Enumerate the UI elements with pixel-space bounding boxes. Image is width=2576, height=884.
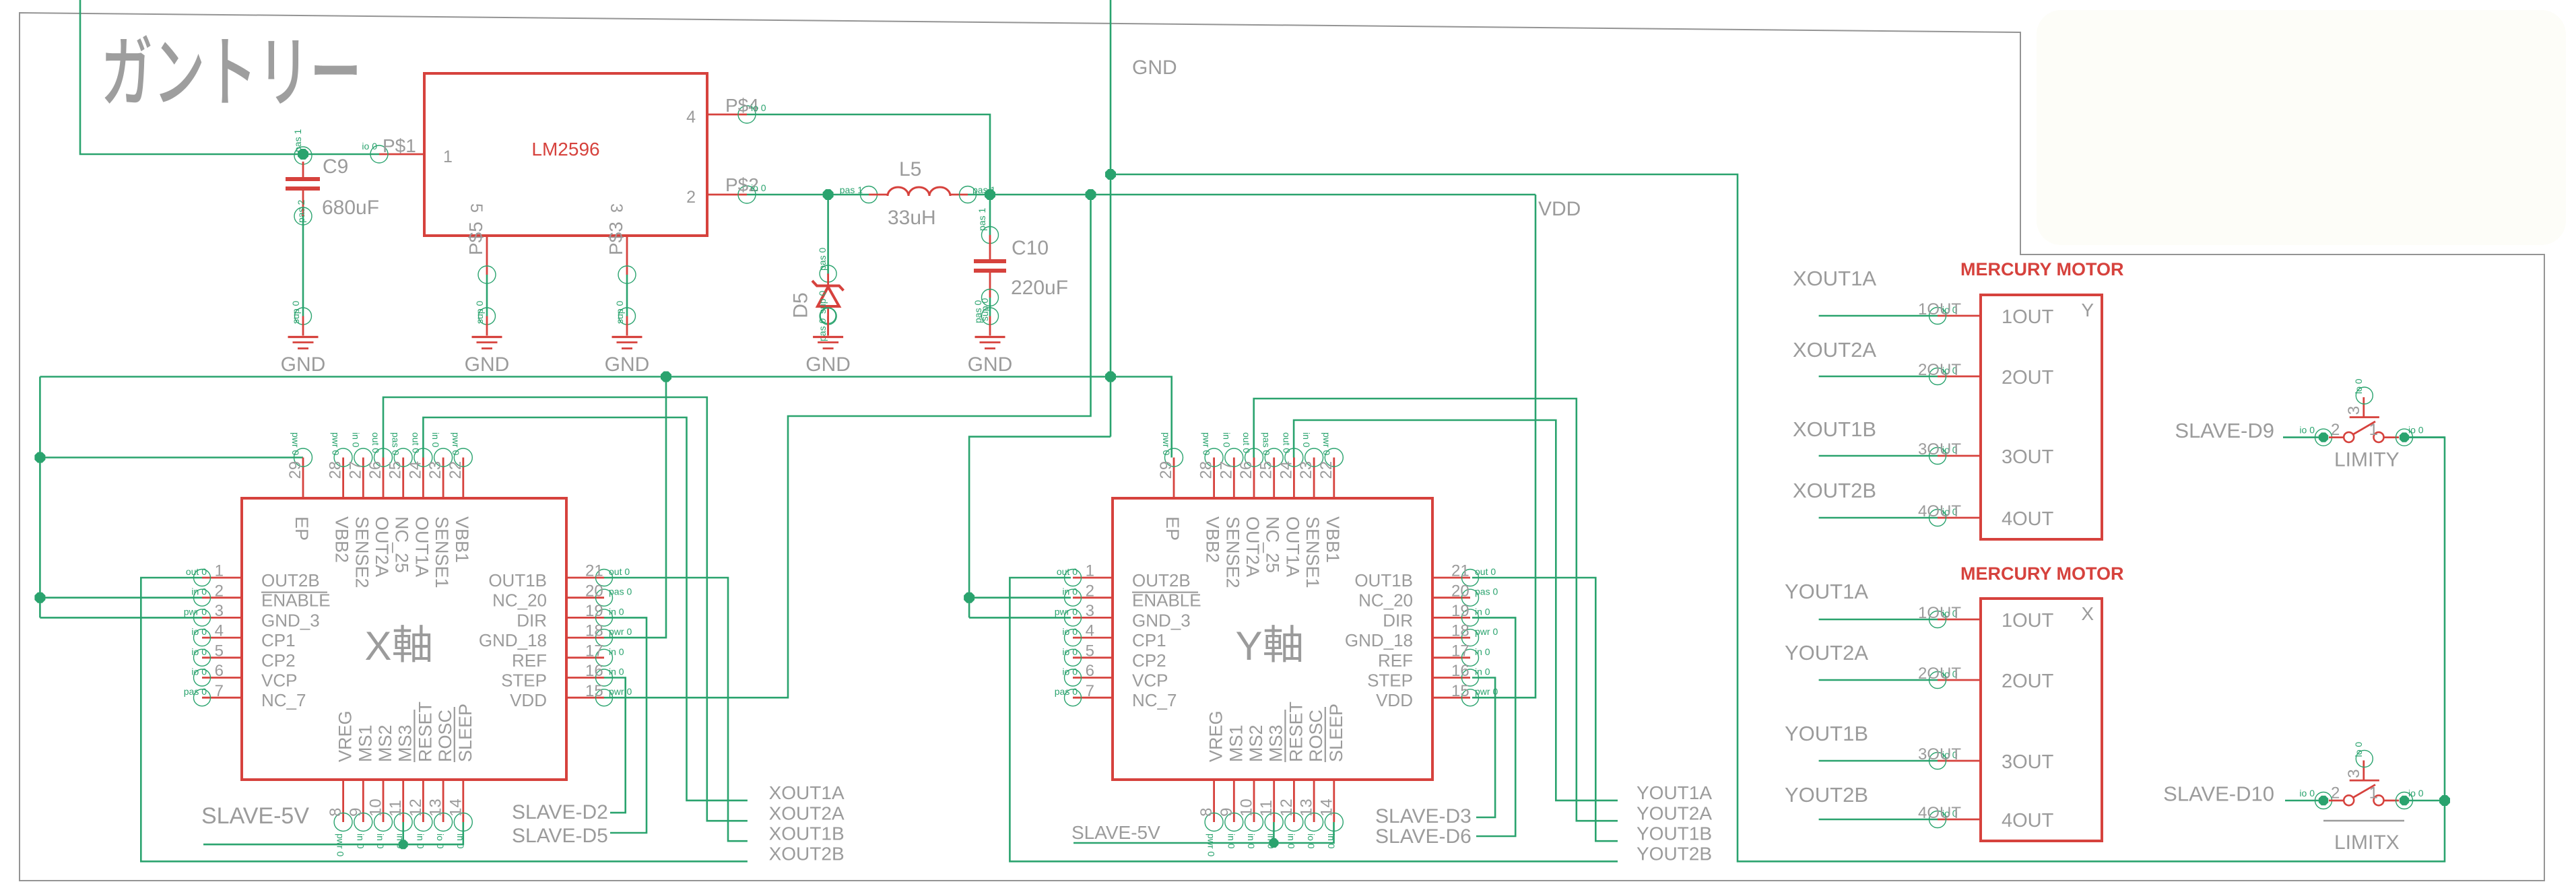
svg-text:XOUT1A: XOUT1A [769,782,845,803]
node junction GND bus at GND net [1105,372,1116,382]
svg-text:28: 28 [327,461,345,479]
svg-text:EP: EP [1162,516,1183,541]
svg-text:20: 20 [585,582,603,600]
svg-text:25: 25 [387,461,405,479]
pin 17 REF of X-axis [512,642,624,670]
pin 2OUT of MERCURY MOTOR Y [1918,361,2054,388]
node junction Y ENABLE [964,592,975,603]
svg-text:RESET: RESET [415,702,435,762]
svg-text:YOUT2B: YOUT2B [1637,844,1712,864]
svg-text:in 0: in 0 [355,834,366,849]
inductor L5 33uH [840,158,996,229]
svg-text:21: 21 [585,562,603,580]
node junction X ENABLE [34,592,45,603]
svg-text:io 0: io 0 [1062,646,1078,657]
svg-text:OUT1A: OUT1A [1282,516,1302,577]
svg-text:5: 5 [215,642,224,660]
wire VDD drop to Y VDD pin [1472,195,1535,698]
svg-text:SENSE1: SENSE1 [1302,516,1323,588]
svg-text:pwr 0: pwr 0 [1201,432,1212,455]
svg-text:18: 18 [585,622,603,640]
wire Y SLAVE-5V to MS3/SLEEP [1074,822,1334,843]
svg-text:X: X [365,623,392,669]
pin 19 DIR of X-axis [517,602,624,630]
connector MERCURY MOTOR Y [1960,259,2124,539]
pin 11 MS3 of Y-axis [1257,724,1286,848]
svg-text:P$3: P$3 [605,222,626,255]
svg-text:MS2: MS2 [1246,724,1266,762]
pin 1 OUT2B of Y-axis [1057,562,1191,590]
svg-text:1: 1 [1086,562,1094,580]
svg-text:23: 23 [1297,461,1315,479]
svg-text:4: 4 [1086,622,1094,640]
svg-text:15: 15 [585,682,603,700]
node junction GND to right rail [1105,169,1116,180]
svg-text:pwr 0: pwr 0 [335,834,346,856]
svg-text:io 0: io 0 [751,102,766,113]
wire Y DIR to SLAVE-D6 [1472,617,1515,836]
svg-text:2: 2 [686,188,696,207]
svg-text:27: 27 [346,461,364,479]
svg-text:out 0: out 0 [1241,432,1252,453]
pin 7 NC_7 of X-axis [184,682,306,710]
svg-text:XOUT2B: XOUT2B [1793,479,1876,502]
pin 2 ENABLE of X-axis [191,582,330,610]
svg-text:11: 11 [387,800,405,817]
svg-text:io 0: io 0 [191,626,207,637]
wire Y STEP to SLAVE-D3 [1472,678,1495,818]
svg-text:L5: L5 [899,158,921,180]
svg-text:SLEEP: SLEEP [1326,704,1346,762]
pin 14 SLEEP of X-axis [447,704,475,849]
svg-text:VCP: VCP [261,671,297,691]
wire X ENABLE ground [40,597,202,599]
svg-text:DIR: DIR [517,610,547,630]
svg-text:MERCURY MOTOR: MERCURY MOTOR [1960,564,2124,584]
connector MERCURY MOTOR X [1960,564,2124,841]
svg-text:ROSC: ROSC [435,710,455,762]
switch body line [2323,820,2404,822]
svg-text:29: 29 [286,461,304,479]
pin 1OUT of MERCURY MOTOR X [1918,604,2054,632]
svg-text:25: 25 [1257,461,1276,479]
svg-text:4: 4 [215,622,224,640]
svg-text:in 0: in 0 [1475,646,1490,657]
highlight region top-right [2037,10,2566,245]
node junction VDD drop [1086,189,1096,200]
svg-text:VCP: VCP [1132,671,1168,691]
svg-text:YOUT2A: YOUT2A [1637,803,1712,824]
svg-text:13: 13 [1298,798,1316,817]
svg-text:GND_3: GND_3 [1132,610,1191,630]
svg-text:in 0: in 0 [1226,834,1236,849]
svg-text:pas 1: pas 1 [972,184,995,195]
svg-text:1: 1 [443,147,453,166]
pin 4OUT of MERCURY MOTOR Y [1918,502,2054,530]
pin 21 OUT1B of Y-axis [1354,562,1496,590]
pin 26 OUT2A of Y-axis [1237,432,1263,577]
svg-text:1OUT: 1OUT [2002,306,2054,328]
svg-text:XOUT1B: XOUT1B [769,823,845,844]
svg-text:in 0: in 0 [1221,432,1232,448]
svg-text:LIMITY: LIMITY [2334,448,2400,471]
wire GND net vertical from top [1110,0,1112,437]
svg-text:in 0: in 0 [1286,834,1296,849]
capacitor C10 220uF [972,208,1068,323]
svg-text:VBB2: VBB2 [332,516,352,563]
wire X STEP to SLAVE-D2 [604,678,626,813]
pin 19 DIR of Y-axis [1383,602,1490,630]
IC X軸 stepper driver [242,498,566,780]
svg-text:22: 22 [447,461,465,479]
node junction X MS3 5V [399,840,408,849]
title ガントリー [104,35,356,104]
svg-text:VDD: VDD [1376,690,1413,710]
svg-text:24: 24 [1277,461,1295,479]
pin 17 REF of Y-axis [1378,642,1490,670]
svg-text:GND: GND [465,353,510,376]
svg-text:in 0: in 0 [609,646,624,657]
svg-text:8: 8 [327,808,345,817]
wire C10 branch down [989,195,991,235]
pin 3 GND_3 of Y-axis [1055,602,1191,630]
wire GND branch to Y-axis left [969,437,1111,618]
svg-text:7: 7 [1086,682,1094,700]
node junction X EP [34,452,45,463]
pin 2 ENABLE of Y-axis [1062,582,1201,610]
svg-text:3OUT: 3OUT [2002,751,2054,773]
wire X SLAVE-5V to MS3/SLEEP [203,822,463,844]
pin 4 CP1 of X-axis [191,622,295,650]
svg-text:MS1: MS1 [355,724,375,762]
svg-text:1: 1 [2369,421,2378,439]
svg-text:2: 2 [215,582,224,600]
wire D5 branch down [827,195,829,275]
wire C9 lower to ground [302,216,304,316]
svg-text:VDD: VDD [1538,198,1581,220]
pin 3OUT of MERCURY MOTOR Y [1918,440,2054,468]
svg-text:VREG: VREG [1206,710,1226,762]
svg-text:4OUT: 4OUT [2002,508,2054,530]
wire P$3 to ground [626,275,628,316]
pin 28 VBB2 of Y-axis [1197,432,1224,563]
svg-text:in 0: in 0 [415,834,426,849]
svg-text:in 0: in 0 [1475,667,1490,677]
svg-text:LIMITX: LIMITX [2334,831,2400,854]
switch SLAVE-D9 LIMITY [2299,378,2423,446]
pin 1OUT of MERCURY MOTOR Y [1918,300,2054,328]
svg-text:YOUT1A: YOUT1A [1637,782,1712,803]
diode D5 zener [790,248,844,341]
pin 28 VBB2 of X-axis [327,432,352,563]
svg-text:NC_7: NC_7 [1132,690,1177,710]
svg-text:13: 13 [427,798,445,817]
wire VDD drop to X VDD pin [604,195,1091,698]
pin 24 OUT1A of Y-axis [1277,432,1303,577]
svg-text:io 0: io 0 [1062,626,1078,637]
pin 13 ROSC of Y-axis [1298,710,1327,849]
svg-text:SENSE1: SENSE1 [432,516,452,588]
wire X EP ground line [40,456,303,458]
svg-text:MS1: MS1 [1226,724,1246,762]
pin 3 GND_3 of X-axis [184,602,320,630]
svg-text:pwr 0: pwr 0 [1321,432,1332,455]
svg-text:pwr 0: pwr 0 [184,606,207,617]
svg-text:OUT2B: OUT2B [1132,570,1191,590]
pin 5 CP2 of X-axis [191,642,295,670]
svg-text:out 0: out 0 [370,432,381,453]
svg-text:3OUT: 3OUT [2002,446,2054,468]
svg-text:6: 6 [1086,662,1094,680]
pin 20 NC_20 of Y-axis [1358,582,1498,610]
svg-text:SLAVE-D2: SLAVE-D2 [512,801,608,823]
node junction D5 tap [823,189,834,200]
pin 29 EP of X-axis [286,432,312,541]
svg-text:io 0: io 0 [191,667,207,677]
svg-text:io 0: io 0 [1062,667,1078,677]
pin 12 RESET of X-axis [407,702,436,849]
svg-text:2OUT: 2OUT [1918,361,1961,379]
pin 3OUT of MERCURY MOTOR X [1918,745,2054,773]
svg-text:16: 16 [1451,662,1469,680]
wire Y OUT2B to YOUT2B [1010,578,1618,861]
svg-text:SENSE2: SENSE2 [352,516,372,588]
switch SLAVE-D10 LIMITX [2299,742,2423,809]
svg-text:io 0: io 0 [2299,425,2315,436]
node junction GND at limit switch D10 [2439,795,2450,806]
svg-text:3: 3 [1086,602,1094,620]
svg-text:12: 12 [407,798,425,817]
node junction L5 output [985,189,995,200]
svg-text:11: 11 [1257,800,1276,817]
svg-text:1OUT: 1OUT [1918,300,1961,318]
svg-text:GND_3: GND_3 [261,610,320,630]
svg-text:in 0: in 0 [609,606,624,617]
svg-text:pas 1: pas 1 [840,184,863,195]
svg-text:YOUT2A: YOUT2A [1785,641,1868,665]
svg-text:NC_7: NC_7 [261,690,306,710]
svg-text:XOUT2A: XOUT2A [769,803,845,824]
svg-text:NC_25: NC_25 [1263,516,1283,573]
wire YOUT2B stub to motor connector [1819,819,1938,821]
pin 8 VREG of Y-axis [1197,710,1226,856]
svg-text:io 0: io 0 [2299,788,2315,798]
svg-text:io 0: io 0 [2408,788,2424,798]
svg-text:YOUT1B: YOUT1B [1637,823,1712,844]
svg-text:OUT1B: OUT1B [488,570,547,590]
svg-text:X: X [2081,603,2094,624]
svg-text:NC_20: NC_20 [492,590,547,611]
pin 24 OUT1A of X-axis [406,432,432,577]
pin 29 EP of Y-axis [1157,432,1183,541]
svg-text:pwr 0: pwr 0 [1161,432,1172,455]
wire Y ENABLE ground [969,597,1071,599]
svg-text:1OUT: 1OUT [1918,604,1961,622]
svg-text:10: 10 [1238,798,1256,817]
svg-text:REF: REF [512,650,547,671]
wire YOUT1A stub to motor connector [1819,619,1938,621]
svg-text:21: 21 [1451,562,1469,580]
pin 12 RESET of Y-axis [1278,702,1307,849]
ground for C10 [968,308,1013,376]
svg-text:pwr 0: pwr 0 [451,432,461,455]
svg-text:GND: GND [281,353,326,376]
svg-text:17: 17 [1451,642,1469,660]
svg-text:RESET: RESET [1286,702,1306,762]
svg-text:SLAVE-5V: SLAVE-5V [201,803,309,829]
svg-text:pwr 0: pwr 0 [331,432,341,455]
pin 27 SENSE2 of X-axis [346,432,372,588]
svg-text:9: 9 [1218,808,1236,817]
pin 25 NC_25 of Y-axis [1257,432,1284,573]
svg-text:DIR: DIR [1383,610,1413,630]
svg-text:MS3: MS3 [1266,724,1286,762]
pin 18 GND_18 of X-axis [479,622,632,650]
wire GND bus across [40,376,1111,378]
svg-text:D5: D5 [790,292,812,318]
svg-text:2OUT: 2OUT [2002,671,2054,692]
pin 6 VCP of X-axis [191,662,297,690]
wire C10 lower to ground [989,298,991,316]
svg-text:in 0: in 0 [609,667,624,677]
svg-text:27: 27 [1217,461,1235,479]
svg-text:in 0: in 0 [430,432,441,448]
svg-text:1: 1 [215,562,224,580]
svg-text:io 0: io 0 [362,141,377,151]
svg-text:io 0: io 0 [1306,834,1317,849]
wire X OUT1B to XOUT1B [604,578,748,841]
svg-text:2: 2 [2331,421,2340,439]
svg-text:sup 0: sup 0 [474,301,485,324]
svg-text:7: 7 [215,682,224,700]
svg-text:XOUT1B: XOUT1B [1793,417,1876,441]
svg-text:SLAVE-D6: SLAVE-D6 [1375,825,1472,848]
pin 15 VDD of Y-axis [1376,682,1498,710]
svg-text:out 0: out 0 [1475,566,1496,577]
svg-text:OUT2A: OUT2A [1243,516,1263,577]
pin 10 MS2 of Y-axis [1238,724,1267,848]
svg-text:ROSC: ROSC [1306,710,1326,762]
pin 9 MS1 of X-axis [347,724,376,848]
svg-text:sup 0: sup 0 [290,301,301,324]
svg-text:VREG: VREG [335,710,356,762]
pin 21 OUT1B of X-axis [488,562,630,590]
wire XOUT2B stub to motor connector [1819,517,1938,519]
svg-text:19: 19 [1451,602,1469,620]
pin 4OUT of MERCURY MOTOR X [1918,804,2054,831]
svg-text:io 0: io 0 [2408,425,2424,436]
svg-text:26: 26 [366,461,385,479]
pin 14 SLEEP of Y-axis [1317,704,1346,849]
svg-text:14: 14 [1317,798,1335,817]
svg-text:29: 29 [1157,461,1175,479]
svg-text:GND: GND [605,353,650,376]
svg-text:SLAVE-D5: SLAVE-D5 [512,825,608,847]
svg-text:14: 14 [447,798,465,817]
svg-text:C9: C9 [323,156,348,178]
svg-text:out 0: out 0 [1281,432,1292,453]
svg-text:SENSE2: SENSE2 [1222,516,1243,588]
svg-text:20: 20 [1451,582,1469,600]
wire Y GND_3 ground [969,617,1071,619]
pin 26 OUT2A of X-axis [366,432,393,577]
svg-text:out 0: out 0 [609,566,630,577]
svg-text:in 0: in 0 [455,834,466,849]
svg-text:out 0: out 0 [1057,566,1078,577]
svg-text:P$5: P$5 [465,222,486,255]
svg-text:YOUT1B: YOUT1B [1785,722,1868,745]
svg-text:pas 0: pas 0 [609,586,632,597]
svg-text:out 0: out 0 [186,566,207,577]
svg-text:3: 3 [2345,769,2363,778]
svg-text:EP: EP [292,516,312,541]
svg-text:SLAVE-D10: SLAVE-D10 [2163,782,2274,805]
wire X OUT2B to XOUT2B [141,578,748,861]
wire SLAVE-D9 stub [2283,436,2323,438]
svg-text:CP2: CP2 [1132,650,1166,671]
svg-text:YOUT1A: YOUT1A [1785,580,1868,603]
svg-text:io 0: io 0 [191,646,207,657]
svg-text:pas 1: pas 1 [292,129,303,152]
pin 7 NC_7 of Y-axis [1055,682,1177,710]
svg-text:YOUT2B: YOUT2B [1785,783,1868,807]
node junction at C9 top [298,149,308,160]
wire P$5 to ground [486,275,488,316]
svg-text:pwr 0: pwr 0 [1475,626,1498,637]
svg-text:C10: C10 [1012,237,1049,259]
svg-text:4OUT: 4OUT [1918,804,1961,822]
pin 8 VREG of X-axis [327,710,355,856]
svg-text:5: 5 [1086,642,1094,660]
svg-text:3OUT: 3OUT [1918,440,1961,458]
svg-text:2: 2 [2331,784,2340,803]
svg-text:in 0: in 0 [395,834,406,849]
wire YOUT2A stub to motor connector [1819,679,1938,681]
svg-text:ENABLE: ENABLE [1132,590,1201,611]
svg-text:GND_18: GND_18 [1345,630,1413,650]
pin 20 NC_20 of X-axis [492,582,632,610]
wire Y OUT1A to YOUT1A [1294,420,1618,801]
svg-text:12: 12 [1278,798,1296,817]
svg-text:2: 2 [1086,582,1094,600]
wire input feed to C9/P$1 [80,0,379,154]
svg-text:4OUT: 4OUT [1918,502,1961,520]
pin 9 MS1 of Y-axis [1218,724,1247,848]
svg-text:28: 28 [1197,461,1216,479]
svg-text:in 0: in 0 [1301,432,1312,448]
svg-text:P$1: P$1 [383,135,416,156]
svg-text:MS2: MS2 [375,724,395,762]
svg-text:OUT2A: OUT2A [372,516,392,577]
svg-text:MERCURY MOTOR: MERCURY MOTOR [1960,259,2124,279]
svg-text:XOUT2B: XOUT2B [769,844,845,864]
svg-text:pwr 0: pwr 0 [1475,686,1498,697]
svg-text:Y: Y [2081,300,2094,320]
svg-text:pas 0: pas 0 [391,432,401,455]
ground for C9 [281,301,326,376]
wire P$4 to VDD rail corner [747,114,990,195]
svg-text:9: 9 [347,808,365,817]
wire SLAVE-D10 pin1 to GND rail [2404,800,2445,802]
pin 2OUT of MERCURY MOTOR X [1918,665,2054,692]
wire Y OUT1B to YOUT1B [1472,578,1618,841]
svg-text:4OUT: 4OUT [2002,810,2054,831]
svg-text:pas 0: pas 0 [817,248,828,271]
svg-text:in 0: in 0 [375,834,386,849]
svg-text:pwr 0: pwr 0 [609,686,632,697]
wire XOUT1A stub to motor connector [1819,315,1938,317]
svg-text:15: 15 [1451,682,1469,700]
